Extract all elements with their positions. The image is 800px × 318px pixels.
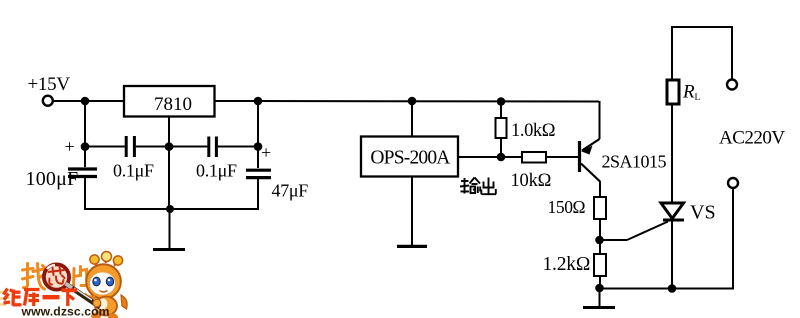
svg-text:2SA1015: 2SA1015	[602, 152, 667, 172]
svg-text:+15V: +15V	[28, 74, 71, 95]
mascot	[66, 252, 128, 318]
wire: 1.2k to bottom rail	[599, 276, 601, 289]
wire: 100uF to bottom rail	[84, 178, 86, 210]
wire: input column vertical (to 100uF)	[84, 101, 86, 167]
ground (right)	[583, 306, 615, 309]
node: junction bottom rail at ground	[166, 205, 174, 213]
decorative speed dashes	[0, 292, 8, 305]
svg-text:47μF: 47μF	[272, 181, 309, 201]
resistor R4 1.2kOhm	[543, 254, 607, 276]
node: junction at input column	[81, 97, 90, 106]
capacitor C2 0.1uF	[113, 136, 154, 181]
svg-text:150Ω: 150Ω	[548, 197, 586, 217]
svg-text:7810: 7810	[154, 94, 192, 115]
svg-text:1.2kΩ: 1.2kΩ	[543, 254, 591, 275]
wire: 150 to 1.2k	[599, 219, 601, 254]
resistor R1 1.0kOhm	[496, 118, 556, 141]
xin glyph inside ring (red)	[49, 267, 65, 285]
node: junction top rail at 1.0k column	[497, 97, 506, 106]
wire: cap rail middle segment	[136, 146, 208, 148]
resistor R2 10kOhm	[511, 152, 552, 191]
wire: 10k to base	[546, 156, 578, 158]
node: junction thyristor cathode column	[668, 284, 677, 293]
wire: output column vertical (to 47uF)	[257, 101, 259, 168]
transistor Q1 2SA1015	[580, 101, 667, 197]
ground (OPS)	[397, 245, 427, 248]
resistor R3 150Ohm	[548, 197, 607, 219]
wire: OPS ground vertical	[411, 176, 413, 246]
wire: RL to thyristor	[671, 103, 673, 220]
svg-text:+: +	[261, 143, 271, 163]
ground (left filter)	[153, 248, 185, 251]
wire: gate wire diagonal	[627, 222, 668, 241]
node: junction center column at cap rail	[165, 142, 174, 151]
node: junction gate tap	[595, 236, 604, 245]
node: junction bottom right rail	[595, 284, 604, 293]
capacitor C3 0.1uF	[196, 137, 237, 181]
svg-text:www.dzsc.com: www.dzsc.com	[21, 305, 110, 318]
wire: ground stem right	[599, 288, 601, 307]
node: junction input column at cap rail	[81, 142, 90, 151]
wire: cap rail left segment	[85, 146, 125, 148]
wire: 7810 ground pin vertical	[168, 117, 170, 210]
terminal +15V input	[28, 74, 71, 106]
wire: 1.0k bottom lead	[500, 138, 502, 157]
wire: top loop RL	[672, 27, 732, 80]
node: junction output column at cap rail	[254, 142, 263, 151]
terminal AC top	[727, 80, 737, 90]
capacitor C1 100uF electrolytic	[26, 137, 98, 191]
thyristor VS	[661, 202, 716, 224]
zhao glyph (orange)	[23, 264, 45, 290]
weiku yixia (red)	[4, 289, 78, 307]
wire: gate wire horizontal	[600, 239, 627, 241]
module U1 OPS-200A	[361, 137, 458, 177]
svg-text:0.1μF: 0.1μF	[113, 161, 154, 181]
node: junction top rail at OPS column	[408, 97, 417, 106]
node: junction OPS output	[497, 153, 506, 162]
wire: 47uF to bottom rail	[257, 179, 259, 210]
svg-text:10kΩ: 10kΩ	[511, 171, 552, 191]
svg-text:1.0kΩ: 1.0kΩ	[511, 121, 555, 141]
svg-text:R: R	[682, 82, 695, 103]
node: junction top rail at 47uF column	[254, 97, 263, 106]
svg-text:L: L	[695, 93, 701, 103]
magnifier ring	[44, 264, 69, 289]
svg-text:100μF: 100μF	[26, 168, 79, 190]
wire: 1.0k top lead	[500, 101, 502, 118]
svg-text:+: +	[65, 137, 75, 157]
wire: top rail from 7810 output to transistor emitter bend	[214, 100, 599, 103]
wire: ground stem left	[169, 209, 171, 249]
watermark logo dzsc	[0, 252, 127, 318]
svg-text:OPS-200A: OPS-200A	[370, 148, 450, 169]
wire: cap rail right segment	[218, 146, 258, 148]
wire: OPS output to 10k	[458, 156, 522, 158]
wire: left bottom rail	[84, 208, 259, 210]
svg-text:0.1μF: 0.1μF	[196, 161, 237, 181]
wire: bottom rail to AC terminal	[600, 188, 733, 289]
wire: +15V terminal to 7810 input	[52, 100, 124, 102]
label: output (Chinese)	[460, 178, 496, 195]
wire: OPS supply vertical	[411, 101, 413, 136]
svg-text:VS: VS	[690, 202, 716, 224]
terminal AC bottom	[728, 178, 738, 188]
resistor R5 RL	[667, 80, 701, 104]
capacitor C4 47uF electrolytic	[246, 143, 308, 201]
regulator 7810	[124, 86, 215, 117]
svg-text:AC220V: AC220V	[719, 128, 785, 149]
pian glyph (orange)	[74, 267, 88, 288]
wire: thyristor cathode to bottom rail	[671, 220, 673, 289]
